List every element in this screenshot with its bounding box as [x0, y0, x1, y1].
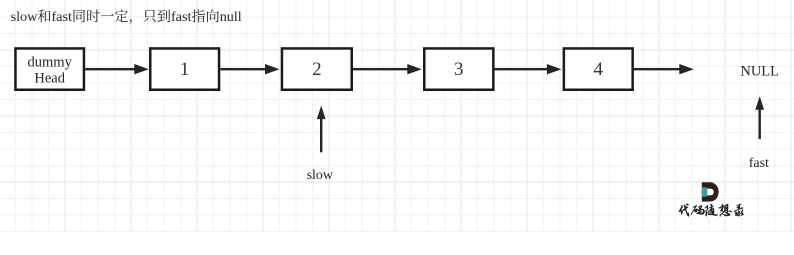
arrow 4->null	[634, 64, 694, 74]
fast pointer arrow	[755, 96, 764, 139]
logo D mark	[702, 182, 719, 201]
svg-text:NULL: NULL	[740, 64, 779, 80]
node box 1	[150, 48, 219, 89]
svg-text:4: 4	[594, 59, 604, 80]
svg-text:1: 1	[180, 59, 190, 80]
svg-text:fast: fast	[51, 9, 71, 25]
svg-text:slow: slow	[307, 168, 334, 183]
slow pointer arrow	[317, 106, 326, 153]
arrow dummy->1	[85, 64, 149, 74]
arrow 3->4	[495, 64, 562, 74]
caption: slow和fast同时一定，只到fast指向null	[11, 9, 242, 25]
svg-text:dummy: dummy	[28, 55, 73, 71]
logo teal accent	[702, 187, 707, 196]
svg-text:null: null	[220, 9, 242, 25]
arrow 1->2	[220, 64, 279, 74]
svg-text:3: 3	[454, 59, 464, 80]
arrow 2->3	[353, 64, 422, 74]
node box 4	[564, 48, 633, 89]
label dummy Head	[28, 55, 73, 87]
svg-text:fast: fast	[171, 9, 191, 25]
node box 3	[424, 48, 493, 89]
svg-text:Head: Head	[34, 71, 65, 87]
logo text 代码随想录	[679, 204, 744, 217]
svg-text:2: 2	[312, 59, 322, 80]
svg-text:slow: slow	[11, 9, 39, 25]
svg-text:fast: fast	[749, 156, 769, 171]
dummy head box	[15, 48, 84, 89]
node box 2	[282, 48, 352, 89]
